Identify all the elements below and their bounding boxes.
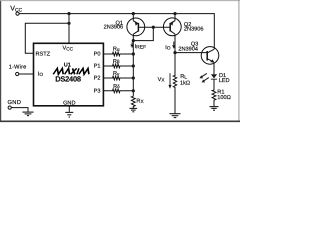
svg-text:RL: RL [180,74,187,80]
svg-text:Rδ: Rδ [113,84,120,90]
svg-text:DS2408: DS2408 [55,74,81,83]
svg-text:RX: RX [136,98,144,104]
svg-text:P1: P1 [94,64,101,70]
svg-text:Rα: Rα [113,47,120,53]
svg-text:2N3906: 2N3906 [104,25,124,31]
svg-text:U1: U1 [64,63,71,69]
svg-text:IO: IO [165,45,171,51]
svg-text:IREF: IREF [135,44,147,51]
svg-text:Rβ: Rβ [113,59,120,65]
svg-text:GND: GND [63,100,75,106]
svg-text:2N3904: 2N3904 [178,46,198,52]
svg-text:P3: P3 [94,89,101,95]
svg-text:1-Wire: 1-Wire [9,63,27,70]
svg-text:1kΩ: 1kΩ [180,79,190,86]
svg-text:2N3906: 2N3906 [184,27,204,33]
svg-text:IO: IO [38,72,44,78]
svg-text:VX: VX [158,77,166,83]
svg-text:GND: GND [8,99,22,106]
svg-text:P0: P0 [94,52,101,58]
svg-text:VCC: VCC [63,46,74,52]
svg-text:VCC: VCC [10,6,22,14]
svg-text:LED: LED [219,78,230,84]
svg-text:Rγ: Rγ [113,71,120,77]
svg-text:100Ω: 100Ω [217,95,231,101]
svg-text:P2: P2 [94,76,101,82]
svg-text:RSTZ: RSTZ [36,52,51,58]
